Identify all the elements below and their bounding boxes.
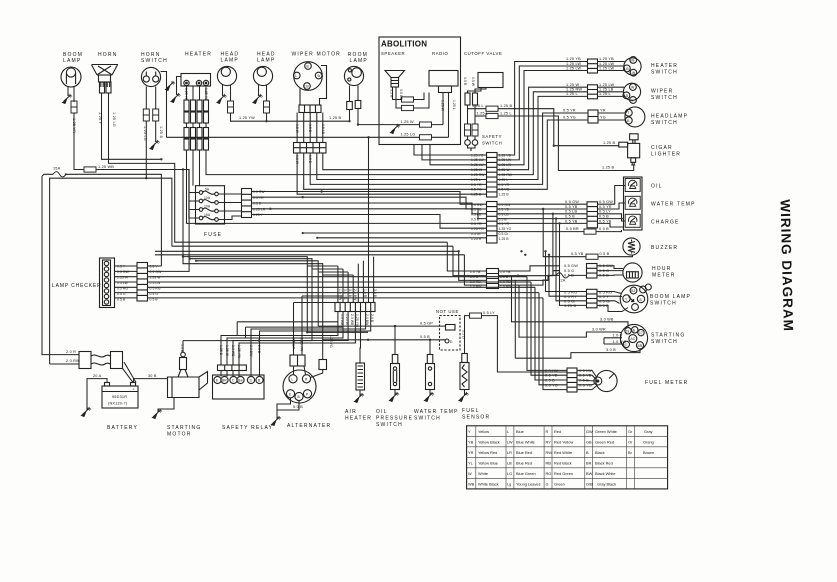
room lamp RL1 bbox=[344, 66, 363, 85]
lamp checker stub wires bbox=[115, 266, 138, 298]
svg-text:1.25 LW: 1.25 LW bbox=[566, 66, 581, 70]
svg-text:Red Green: Red Green bbox=[554, 471, 573, 476]
svg-text:STARTING: STARTING bbox=[651, 333, 685, 339]
svg-text:SWITCH: SWITCH bbox=[650, 301, 677, 307]
battery cables bbox=[79, 352, 123, 369]
svg-text:0.5 YR: 0.5 YR bbox=[563, 109, 576, 113]
buzzer BZ1 bbox=[623, 238, 640, 255]
svg-text:1.25 Y: 1.25 Y bbox=[253, 213, 264, 217]
wiper motor legs bbox=[300, 66, 327, 106]
svg-text:SWITCH: SWITCH bbox=[482, 141, 502, 146]
wire boom lamp right bbox=[73, 87, 75, 102]
wires CC1 G1 left upward stubs bbox=[414, 145, 487, 156]
svg-text:Black: Black bbox=[595, 450, 605, 455]
svg-text:Blue Red: Blue Red bbox=[516, 461, 532, 466]
wire fuel meter feed 3 bbox=[535, 287, 567, 380]
svg-text:YL: YL bbox=[468, 461, 474, 466]
svg-text:0.5 W: 0.5 W bbox=[295, 124, 299, 134]
svg-text:LIGHTER: LIGHTER bbox=[651, 152, 681, 158]
svg-text:LAMP CHECKER: LAMP CHECKER bbox=[52, 283, 102, 289]
svg-text:LB: LB bbox=[624, 67, 629, 71]
svg-text:0.5 LB: 0.5 LB bbox=[471, 213, 482, 217]
wire fuel sensor 0.5 LY bbox=[465, 316, 470, 354]
svg-text:1.25 LB: 1.25 LB bbox=[599, 88, 614, 92]
svg-text:1.25 YG: 1.25 YG bbox=[329, 335, 333, 348]
svg-text:CIGAR: CIGAR bbox=[651, 145, 673, 151]
wire 0.5 B bbox=[323, 340, 445, 341]
svg-text:Orang: Orang bbox=[643, 440, 654, 445]
svg-text:FUEL: FUEL bbox=[462, 408, 480, 414]
wires CC1 G3 left risers bbox=[447, 242, 486, 271]
svg-text:Red Yellow: Red Yellow bbox=[554, 440, 573, 445]
svg-text:L: L bbox=[292, 378, 294, 382]
lamp checker rows to right bbox=[148, 265, 162, 267]
svg-text:YG: YG bbox=[600, 116, 606, 120]
svg-text:1.25 B: 1.25 B bbox=[159, 126, 163, 138]
svg-text:0.5 W: 0.5 W bbox=[471, 77, 475, 87]
heater connector stack bbox=[184, 100, 209, 150]
svg-text:1.25 L: 1.25 L bbox=[452, 100, 456, 110]
svg-text:1.25 YR: 1.25 YR bbox=[184, 88, 188, 101]
battery + diagonals to cable bbox=[123, 362, 137, 383]
svg-text:Blue: Blue bbox=[516, 429, 524, 434]
wire left loop inner bbox=[50, 178, 172, 364]
svg-text:T: T bbox=[627, 111, 629, 115]
svg-text:Or: Or bbox=[628, 440, 633, 445]
svg-text:CUTOFF VALVE: CUTOFF VALVE bbox=[464, 51, 502, 56]
wires heater down bbox=[187, 86, 207, 100]
wires CC1 G2 to CC2 gauges bbox=[497, 203, 587, 205]
wire horn 2 to bundle bbox=[109, 93, 448, 242]
svg-text:HEADLAMP: HEADLAMP bbox=[651, 114, 688, 120]
svg-text:1.25 YG: 1.25 YG bbox=[499, 227, 512, 231]
svg-text:CHARGE: CHARGE bbox=[651, 220, 680, 226]
wire 20 A battery to ground bbox=[87, 379, 107, 410]
svg-text:LB: LB bbox=[624, 94, 629, 98]
svg-text:YR: YR bbox=[600, 109, 606, 113]
svg-text:0.5 YR: 0.5 YR bbox=[499, 222, 510, 226]
cigar lighter CL1 bbox=[619, 134, 640, 165]
fuse rows bbox=[199, 191, 218, 222]
safety switch resistors bbox=[465, 93, 478, 105]
svg-text:1.25 W: 1.25 W bbox=[150, 275, 162, 279]
wires speaker bbox=[393, 87, 402, 100]
svg-text:1.25 B: 1.25 B bbox=[219, 345, 223, 356]
heater HT1 bbox=[181, 74, 211, 87]
svg-text:LG: LG bbox=[507, 471, 512, 476]
svg-text:0.5 GW: 0.5 GW bbox=[471, 203, 484, 207]
svg-text:Gr: Gr bbox=[628, 429, 633, 434]
svg-text:0.5 B: 0.5 B bbox=[599, 227, 609, 231]
mid bundle rows to relay region bbox=[183, 257, 307, 333]
svg-text:0.5 LB: 0.5 LB bbox=[565, 210, 577, 214]
svg-text:17: 17 bbox=[639, 331, 643, 335]
ground boom lamp bbox=[63, 94, 73, 104]
svg-text:NOT USE: NOT USE bbox=[436, 309, 459, 314]
svg-text:RADIO: RADIO bbox=[432, 51, 448, 56]
svg-text:2.0 RW: 2.0 RW bbox=[66, 359, 80, 363]
radio RD1 bbox=[429, 71, 458, 93]
wires safety switch bbox=[468, 105, 476, 124]
svg-text:B2: B2 bbox=[631, 289, 635, 293]
abolition box bbox=[379, 37, 461, 145]
svg-text:BUZZER: BUZZER bbox=[651, 245, 678, 251]
svg-text:OIL: OIL bbox=[651, 184, 663, 190]
svg-text:SWITCH: SWITCH bbox=[414, 416, 441, 422]
svg-text:ABOLITION: ABOLITION bbox=[381, 40, 427, 49]
svg-text:Bw: Bw bbox=[238, 379, 243, 383]
svg-text:HORN: HORN bbox=[141, 52, 161, 58]
svg-text:BW: BW bbox=[586, 471, 593, 476]
svg-text:LB: LB bbox=[305, 85, 310, 89]
svg-text:Blue White: Blue White bbox=[516, 440, 535, 445]
svg-text:0.5 B: 0.5 B bbox=[565, 215, 575, 219]
wire horn 1 to lamp checker row1 bbox=[102, 93, 162, 159]
wire bundle row 255 bbox=[155, 254, 464, 256]
wire left loop outer with 15A fuse bbox=[42, 176, 79, 355]
hour meter HM1 bbox=[623, 263, 642, 282]
svg-text:SWITCH: SWITCH bbox=[376, 422, 403, 428]
svg-text:0.5 GB: 0.5 GB bbox=[399, 89, 403, 101]
svg-text:1.25 W: 1.25 W bbox=[441, 100, 445, 112]
wires radio down bbox=[442, 93, 444, 125]
alternator R connector bbox=[319, 360, 327, 370]
wire starting switch 3.0B riser bbox=[514, 280, 516, 358]
svg-text:BOOM LAMP: BOOM LAMP bbox=[650, 294, 691, 300]
svg-text:LW: LW bbox=[507, 440, 513, 445]
svg-text:1.25 LG: 1.25 LG bbox=[112, 112, 116, 127]
svg-text:1.25 RW: 1.25 RW bbox=[566, 88, 582, 92]
svg-text:0.5 GW: 0.5 GW bbox=[117, 270, 130, 274]
svg-text:Brown: Brown bbox=[643, 450, 654, 455]
speaker SP1 bbox=[385, 71, 405, 88]
svg-text:B: B bbox=[586, 450, 589, 455]
svg-text:WATER TEMP: WATER TEMP bbox=[651, 202, 696, 208]
svg-text:0.5 GW: 0.5 GW bbox=[599, 200, 613, 204]
svg-text:1.25 LG: 1.25 LG bbox=[143, 126, 147, 141]
svg-text:1.25 B: 1.25 B bbox=[564, 304, 576, 308]
svg-text:0.5 GP: 0.5 GP bbox=[420, 321, 433, 325]
svg-text:GB: GB bbox=[586, 440, 592, 445]
svg-text:LB: LB bbox=[507, 461, 512, 466]
wiper motor WM1 bbox=[294, 62, 323, 91]
wires CC1 G1 to right switches staircase bbox=[497, 62, 588, 156]
svg-text:0.5 G: 0.5 G bbox=[564, 269, 574, 273]
horn H1 bbox=[92, 65, 119, 94]
heater switch connector bbox=[588, 59, 598, 73]
charge gauge bbox=[625, 214, 640, 227]
svg-text:1.25 LG: 1.25 LG bbox=[401, 133, 416, 137]
svg-text:SWITCH: SWITCH bbox=[651, 95, 678, 101]
svg-text:LAMP: LAMP bbox=[350, 58, 368, 64]
svg-text:0.5 B: 0.5 B bbox=[420, 335, 430, 339]
wire 3.0 WB bbox=[512, 276, 629, 328]
svg-text:1.25 YR: 1.25 YR bbox=[72, 118, 76, 133]
svg-text:SENSOR: SENSOR bbox=[462, 415, 490, 421]
svg-text:0.5 LY: 0.5 LY bbox=[483, 311, 495, 315]
lamp checker connector stack bbox=[137, 263, 148, 302]
svg-text:RW: RW bbox=[546, 450, 553, 455]
svg-text:Green White: Green White bbox=[595, 429, 617, 434]
svg-text:0.5 YB: 0.5 YB bbox=[565, 219, 578, 223]
wire bundle row 246 bbox=[172, 245, 453, 247]
svg-text:0.5 LB: 0.5 LB bbox=[499, 213, 510, 217]
svg-text:1.25 B: 1.25 B bbox=[471, 193, 482, 197]
svg-text:ALTERNATER: ALTERNATER bbox=[287, 423, 331, 429]
water temp gauge bbox=[625, 196, 640, 209]
wire boom lamp down to 1.25WB row bbox=[74, 113, 84, 170]
svg-text:1.25 LW: 1.25 LW bbox=[566, 62, 581, 66]
svg-text:PRESSURE: PRESSURE bbox=[376, 416, 413, 422]
svg-text:LW: LW bbox=[630, 71, 636, 75]
svg-text:Red: Red bbox=[554, 429, 561, 434]
starting switch SS1 bbox=[620, 324, 647, 351]
oil gauge bbox=[625, 179, 640, 192]
svg-text:0.5 YG: 0.5 YG bbox=[563, 116, 576, 120]
svg-text:1.25 L: 1.25 L bbox=[477, 111, 489, 115]
head lamp HL2 bbox=[253, 66, 272, 85]
svg-text:0.5 GW: 0.5 GW bbox=[499, 203, 512, 207]
fuse outputs bbox=[218, 194, 241, 220]
svg-text:HEAD: HEAD bbox=[221, 52, 240, 58]
svg-text:2.0 B: 2.0 B bbox=[257, 345, 261, 354]
wires heater switch bbox=[598, 62, 625, 71]
svg-text:SAFETY: SAFETY bbox=[482, 134, 502, 139]
wire heater case ground bbox=[177, 77, 182, 96]
wire 0.5 GP bbox=[318, 325, 445, 327]
svg-text:1.0 BW: 1.0 BW bbox=[613, 340, 627, 344]
svg-text:BATTERY: BATTERY bbox=[107, 425, 138, 431]
svg-text:0.5 B: 0.5 B bbox=[600, 252, 610, 256]
svg-text:WATER TEMP: WATER TEMP bbox=[414, 409, 459, 415]
svg-text:1.25 L: 1.25 L bbox=[472, 104, 484, 108]
svg-text:Y: Y bbox=[468, 429, 471, 434]
svg-text:95D31R: 95D31R bbox=[112, 395, 127, 399]
svg-text:AIR: AIR bbox=[345, 409, 357, 415]
svg-text:1.25 LW: 1.25 LW bbox=[599, 62, 614, 66]
svg-text:0.5 Gr: 0.5 Gr bbox=[599, 300, 611, 304]
svg-text:0.5 GW: 0.5 GW bbox=[564, 264, 578, 268]
svg-text:SWITCH: SWITCH bbox=[141, 58, 168, 64]
svg-text:METER: METER bbox=[652, 273, 676, 279]
svg-text:SWITCH: SWITCH bbox=[651, 339, 678, 345]
svg-text:1.25 W: 1.25 W bbox=[225, 345, 229, 357]
svg-text:2.0 R: 2.0 R bbox=[66, 350, 76, 354]
svg-text:MOTOR: MOTOR bbox=[167, 432, 192, 438]
svg-text:15A: 15A bbox=[53, 167, 61, 171]
svg-text:1.25 W: 1.25 W bbox=[401, 120, 414, 124]
wire 1.0 B / 1.0 BW stubs bbox=[604, 338, 624, 344]
svg-text:1.25 YW: 1.25 YW bbox=[239, 116, 255, 120]
svg-text:HEATER: HEATER bbox=[651, 63, 678, 69]
fuse output connector stack bbox=[242, 189, 252, 218]
svg-text:LAMP: LAMP bbox=[221, 58, 239, 64]
svg-text:3.0 B: 3.0 B bbox=[606, 348, 616, 352]
wire fuel meter feed 2 bbox=[531, 282, 567, 375]
connector boom lamp bbox=[71, 101, 77, 113]
svg-text:0.5 B: 0.5 B bbox=[471, 217, 480, 221]
svg-text:3.0 WB: 3.0 WB bbox=[600, 317, 614, 321]
2A fuse wire bbox=[553, 214, 557, 276]
wire boom switch feed 4 bbox=[560, 223, 587, 305]
svg-text:1.25 YW: 1.25 YW bbox=[300, 338, 304, 352]
svg-text:HORN: HORN bbox=[98, 52, 118, 58]
svg-text:5A: 5A bbox=[205, 188, 210, 192]
svg-text:Black Red: Black Red bbox=[595, 461, 613, 466]
safety switch contacts bbox=[465, 140, 478, 151]
svg-text:0.5 Gr: 0.5 Gr bbox=[564, 300, 576, 304]
svg-text:HEATER: HEATER bbox=[185, 52, 212, 58]
wire room lamp right to radio 1.25 W bbox=[358, 109, 443, 125]
wire boom lamp left to ground bbox=[67, 87, 69, 96]
svg-text:YR: YR bbox=[468, 450, 474, 455]
svg-text:30 B: 30 B bbox=[148, 374, 157, 378]
svg-text:1.25 B: 1.25 B bbox=[500, 104, 512, 108]
svg-text:0.5 YR: 0.5 YR bbox=[471, 222, 482, 226]
svg-text:(NX120-7): (NX120-7) bbox=[108, 402, 128, 406]
svg-text:G: G bbox=[546, 482, 549, 487]
wire boom switch feed 1 bbox=[546, 251, 587, 291]
svg-text:0.5 LY: 0.5 LY bbox=[599, 210, 611, 214]
gauges frame bbox=[624, 177, 643, 230]
svg-text:LR: LR bbox=[507, 450, 512, 455]
svg-text:2.0 BW: 2.0 BW bbox=[249, 345, 253, 357]
svg-text:1.25 B: 1.25 B bbox=[329, 116, 341, 120]
svg-text:1.25 B: 1.25 B bbox=[603, 141, 615, 145]
svg-text:0.5 YR: 0.5 YR bbox=[599, 205, 612, 209]
wire headlamp junction line 1.25 YW bbox=[231, 113, 350, 121]
boom lamp switch BLS1 bbox=[620, 284, 651, 313]
svg-text:HEATER: HEATER bbox=[345, 416, 372, 422]
svg-text:BOOM: BOOM bbox=[63, 52, 83, 58]
svg-text:1.25 RW: 1.25 RW bbox=[471, 173, 485, 177]
svg-text:Gray: Gray bbox=[644, 429, 652, 434]
svg-text:0.5 LB: 0.5 LB bbox=[321, 124, 325, 135]
cutoff valve CV1 bbox=[478, 73, 503, 88]
wire fuel meter feed 5 bbox=[543, 298, 567, 390]
headlamp switch connector bbox=[588, 110, 598, 123]
svg-text:Yellow Red: Yellow Red bbox=[478, 450, 497, 455]
svg-text:STARTING: STARTING bbox=[167, 425, 201, 431]
svg-text:10A: 10A bbox=[204, 196, 211, 200]
svg-text:10A: 10A bbox=[204, 205, 211, 209]
fuel meter FM1 bbox=[594, 370, 617, 391]
wires fuse outputs to CC1 G2 bbox=[252, 192, 487, 205]
svg-text:WB: WB bbox=[468, 482, 475, 487]
svg-text:0.5 G: 0.5 G bbox=[390, 89, 394, 98]
wiper switch connector bbox=[588, 85, 598, 99]
svg-text:SPEAKER: SPEAKER bbox=[381, 51, 405, 56]
svg-text:1.25 L: 1.25 L bbox=[500, 111, 512, 115]
svg-text:0.5 R: 0.5 R bbox=[463, 77, 467, 86]
wire boom switch feed 2 bbox=[549, 255, 587, 296]
svg-text:0.5 YB: 0.5 YB bbox=[565, 205, 578, 209]
svg-text:2.0 WB: 2.0 WB bbox=[231, 345, 235, 357]
svg-text:1.25 LW: 1.25 LW bbox=[599, 66, 614, 70]
svg-text:FUSE: FUSE bbox=[204, 232, 222, 238]
svg-text:0.5 B: 0.5 B bbox=[253, 202, 262, 206]
svg-text:20 A: 20 A bbox=[93, 374, 102, 378]
svg-text:2A: 2A bbox=[561, 279, 566, 283]
svg-text:1.25 W: 1.25 W bbox=[117, 275, 129, 279]
wire 1.25 LG row bbox=[167, 136, 449, 138]
risers above relay row bbox=[338, 266, 353, 303]
head lamp HL1 bbox=[217, 66, 236, 85]
svg-text:2.0 WB: 2.0 WB bbox=[350, 314, 354, 326]
svg-text:1.25 YB: 1.25 YB bbox=[566, 57, 581, 61]
svg-text:SWITCH: SWITCH bbox=[651, 70, 678, 76]
svg-text:BR: BR bbox=[586, 461, 592, 466]
fuse feeds bbox=[189, 186, 199, 218]
svg-text:0.5 YR: 0.5 YR bbox=[253, 196, 264, 200]
svg-text:OIL: OIL bbox=[376, 409, 388, 415]
svg-text:0.5 YB: 0.5 YB bbox=[571, 252, 584, 256]
wires CC1 G3 right to hour meter bbox=[499, 266, 554, 271]
svg-text:0.5 YR: 0.5 YR bbox=[343, 289, 347, 300]
svg-text:G/B: G/B bbox=[586, 482, 593, 487]
wire 30 B battery to motor bbox=[134, 378, 168, 380]
svg-text:W: W bbox=[468, 471, 472, 476]
svg-text:1.25 L: 1.25 L bbox=[566, 92, 578, 96]
svg-text:0.5 B: 0.5 B bbox=[599, 215, 609, 219]
svg-text:Black White: Black White bbox=[595, 471, 616, 476]
alternator top connectors bbox=[290, 355, 305, 366]
svg-text:5.0 B: 5.0 B bbox=[180, 344, 184, 353]
wire 3.0 B bbox=[515, 349, 640, 358]
svg-text:0.5 Gr: 0.5 Gr bbox=[499, 232, 510, 236]
svg-text:1.25 B: 1.25 B bbox=[499, 237, 510, 241]
svg-text:0.5 BR: 0.5 BR bbox=[566, 227, 579, 231]
svg-text:15A: 15A bbox=[204, 213, 211, 217]
wiper connector stack bbox=[294, 143, 327, 154]
svg-text:WIPER: WIPER bbox=[651, 89, 673, 95]
svg-text:RG: RG bbox=[546, 471, 552, 476]
svg-text:0.5 YR: 0.5 YR bbox=[471, 183, 482, 187]
svg-text:YB: YB bbox=[468, 440, 474, 445]
svg-text:1.25 B: 1.25 B bbox=[602, 166, 614, 170]
svg-text:1.25 WB: 1.25 WB bbox=[98, 165, 114, 169]
svg-text:L: L bbox=[632, 99, 634, 103]
svg-text:ROOM: ROOM bbox=[348, 52, 368, 58]
relay top connector bbox=[218, 365, 247, 371]
svg-text:0.5 LY: 0.5 LY bbox=[462, 330, 466, 341]
svg-text:SAFETY RELAY: SAFETY RELAY bbox=[222, 425, 273, 431]
svg-text:1.0 YW: 1.0 YW bbox=[338, 289, 342, 301]
wires below relay row bbox=[221, 312, 338, 366]
svg-text:0.5 GW: 0.5 GW bbox=[150, 270, 163, 274]
wiper switch WS1 bbox=[623, 83, 641, 103]
svg-text:RB: RB bbox=[546, 461, 552, 466]
svg-text:0.5 RY: 0.5 RY bbox=[564, 295, 577, 299]
svg-text:1.25 L: 1.25 L bbox=[599, 92, 611, 96]
svg-text:Red Black: Red Black bbox=[554, 461, 572, 466]
svg-text:BR: BR bbox=[638, 344, 643, 348]
svg-text:0.5 YB: 0.5 YB bbox=[599, 219, 612, 223]
svg-text:R: R bbox=[546, 429, 549, 434]
svg-text:1.25 W: 1.25 W bbox=[471, 168, 483, 172]
svg-text:0.5 YB: 0.5 YB bbox=[499, 208, 510, 212]
svg-text:BR: BR bbox=[222, 379, 227, 383]
wire boom switch feed 3 bbox=[556, 219, 587, 301]
headlamp switch HLS1 bbox=[625, 107, 645, 127]
svg-text:HEAD: HEAD bbox=[257, 52, 276, 58]
wire horn switch left bbox=[145, 87, 147, 110]
svg-text:0.5 GP: 0.5 GP bbox=[292, 338, 296, 350]
svg-text:Yellow: Yellow bbox=[478, 429, 489, 434]
svg-text:Yellow Blue: Yellow Blue bbox=[478, 461, 498, 466]
svg-text:WIPER MOTOR: WIPER MOTOR bbox=[292, 51, 342, 57]
wire safety switch B row bbox=[468, 108, 487, 110]
